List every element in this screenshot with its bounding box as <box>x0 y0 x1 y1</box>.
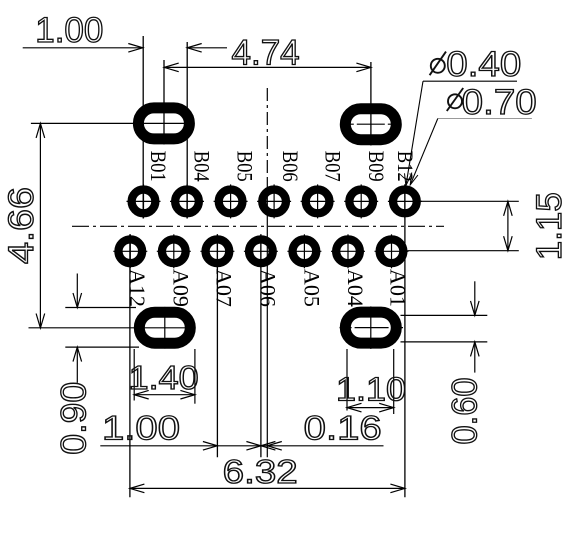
svg-text:A05: A05 <box>299 269 324 307</box>
svg-text:B01: B01 <box>146 151 171 182</box>
svg-text:A01: A01 <box>385 269 410 307</box>
svg-text:1.40: 1.40 <box>129 359 199 396</box>
svg-text:1.10: 1.10 <box>336 370 406 407</box>
svg-text:0.16: 0.16 <box>304 410 382 448</box>
svg-text:B06: B06 <box>278 151 303 182</box>
svg-text:1.00: 1.00 <box>35 11 103 50</box>
svg-text:B07: B07 <box>321 151 346 182</box>
svg-text:1.15: 1.15 <box>530 192 569 260</box>
svg-text:1.00: 1.00 <box>102 410 180 448</box>
svg-text:0.60: 0.60 <box>446 378 485 445</box>
svg-text:0.90: 0.90 <box>54 382 93 455</box>
svg-text:B12: B12 <box>393 151 418 182</box>
svg-text:A09: A09 <box>169 269 194 307</box>
svg-text:A07: A07 <box>212 269 237 307</box>
svg-text:A12: A12 <box>125 269 150 307</box>
svg-text:0.40: 0.40 <box>446 45 521 84</box>
svg-text:B05: B05 <box>233 151 258 182</box>
svg-text:B04: B04 <box>189 151 214 182</box>
svg-text:A06: A06 <box>256 269 281 307</box>
svg-text:4.66: 4.66 <box>2 187 41 264</box>
svg-text:0.70: 0.70 <box>462 83 537 122</box>
svg-text:4.74: 4.74 <box>232 33 300 72</box>
svg-text:6.32: 6.32 <box>223 453 298 490</box>
svg-text:A04: A04 <box>343 269 368 307</box>
svg-text:B09: B09 <box>364 151 389 182</box>
